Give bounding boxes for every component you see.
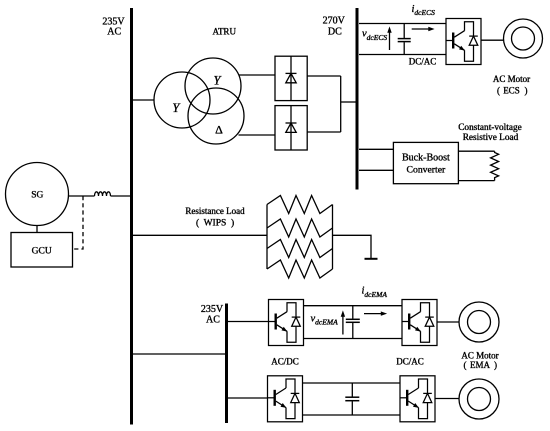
svg-text:idcECS: idcECS (412, 4, 436, 17)
converter AC/DC (EMA1) (269, 300, 304, 346)
WIPS left rail (266, 205, 268, 270)
svg-text:vdcEMA: vdcEMA (311, 313, 339, 326)
wire SG to GCU (36, 226, 38, 233)
svg-text:idcEMA: idcEMA (362, 285, 388, 298)
wire EMA2 dc link bottom rail (303, 414, 401, 416)
svg-text:Resistance Load: Resistance Load (185, 206, 245, 216)
wire inverter to ECS motor (481, 39, 504, 41)
GCU box (11, 233, 73, 268)
label i_dcECS (412, 4, 436, 17)
ground (365, 258, 378, 260)
wire EMA2 inverter to motor (435, 398, 459, 400)
wire sub-bus to EMA1 rectifier (228, 321, 269, 323)
arrow v_dcECS (387, 26, 391, 50)
svg-text:(EMA): (EMA) (464, 360, 498, 370)
svg-text:SG: SG (31, 191, 43, 201)
wire rectifier common vertical (340, 76, 342, 132)
WIPS resistor row 4 (267, 260, 333, 278)
label 270V DC (323, 16, 346, 38)
WIPS resistor row 1 (267, 196, 333, 214)
svg-text:AC/DC: AC/DC (271, 356, 299, 366)
svg-text:Y: Y (214, 74, 223, 88)
wire SG to inductor (68, 195, 94, 197)
wire main bus to WIPS load (133, 234, 268, 236)
svg-text:AC Motor: AC Motor (461, 350, 498, 360)
270V DC bus (356, 8, 359, 190)
svg-text:Converter: Converter (407, 164, 447, 175)
wire top winding to rectifier 1 (239, 74, 276, 76)
resistor constant-voltage load (491, 151, 499, 180)
svg-text:Constant-voltage: Constant-voltage (458, 123, 522, 133)
label DC/AC (EMA1) (396, 356, 424, 366)
svg-text:AC: AC (107, 26, 121, 37)
wire buck-boost to load bottom (458, 180, 494, 182)
label Resistance Load (WIPS) (185, 206, 245, 229)
svg-text:AC Motor: AC Motor (493, 74, 530, 84)
generator SG (6, 163, 69, 226)
wire DC bus to buck-boost top (359, 148, 393, 150)
label AC Motor (EMA) (461, 350, 498, 370)
svg-text:(WIPS): (WIPS) (196, 217, 234, 228)
AC motor EMA2 (459, 379, 499, 419)
converter AC/DC (EMA2) (268, 376, 303, 422)
label 235V AC (EMA bus) (201, 304, 224, 326)
wire rectifier to DC bus (341, 101, 357, 103)
inductor L (95, 192, 111, 196)
converter DC/AC (EMA2 inverter) (400, 376, 435, 422)
wire buck-boost to load top (458, 150, 494, 152)
label DC/AC (ECS) (409, 57, 437, 67)
EMA 235V AC sub-bus (225, 304, 228, 424)
WIPS resistor row 3 (267, 240, 333, 258)
ATRU left winding circle Y (154, 72, 210, 128)
converter DC/AC (EMA1 inverter) (402, 300, 437, 346)
wire EMA1 dc link top rail (304, 305, 403, 307)
wire WIPS to ground (333, 235, 372, 258)
wire rectifier 1 output (307, 75, 341, 77)
svg-text:vdcECS: vdcECS (362, 28, 387, 41)
wire EMA2 dc link top rail (303, 382, 401, 384)
svg-text:ATRU: ATRU (212, 27, 236, 37)
arrow i_dcEMA (364, 311, 387, 315)
svg-text:235V: 235V (201, 304, 224, 315)
label 235V AC (main bus) (102, 16, 125, 37)
label ATRU (212, 27, 236, 37)
label AC Motor (ECS) (493, 74, 530, 96)
ATRU bottom winding circle Delta (188, 88, 244, 144)
svg-text:GCU: GCU (32, 246, 52, 256)
wire bottom winding to rectifier 2 (239, 134, 276, 136)
capacitor C (ECS dc link) (398, 24, 411, 55)
svg-text:DC/AC: DC/AC (409, 57, 437, 67)
svg-text:(ECS): (ECS) (497, 86, 528, 96)
wire DC bus to buck-boost bottom (359, 169, 393, 171)
rectifier box 1 (275, 56, 307, 100)
dashed sense line to GCU (73, 196, 83, 249)
wire EMA1 dc link bottom rail (304, 338, 403, 340)
wire EMA1 inverter to motor (437, 321, 459, 323)
arrow i_dcECS (412, 27, 435, 31)
label i_dcEMA (362, 285, 388, 298)
wire sub-bus to EMA2 rectifier (228, 397, 268, 399)
wire ECS dc link top rail (359, 23, 446, 25)
label v_dcECS (362, 28, 387, 41)
AC motor EMA1 (459, 302, 499, 342)
ATRU top winding circle Y (185, 58, 241, 114)
svg-text:DC/AC: DC/AC (396, 356, 424, 366)
arrow v_dcEMA (341, 310, 345, 334)
buck-boost converter box (393, 142, 458, 183)
WIPS right rail (332, 205, 334, 270)
svg-text:Y: Y (172, 101, 181, 115)
wire main bus to ATRU (133, 99, 155, 101)
rectifier box 2 (275, 106, 307, 150)
converter DC/AC (ECS inverter) (446, 19, 481, 65)
main 235V AC bus (130, 8, 133, 425)
svg-text:270V: 270V (323, 16, 346, 27)
wire inductor to main bus (111, 195, 132, 197)
svg-text:Buck-Boost: Buck-Boost (402, 152, 450, 163)
wire main bus to EMA sub-bus (133, 353, 227, 355)
AC motor ECS (504, 19, 543, 58)
svg-text:Resistive Load: Resistive Load (463, 133, 519, 143)
wire rectifier 2 output (307, 131, 341, 133)
svg-text:DC: DC (328, 26, 342, 37)
svg-text:Δ: Δ (215, 123, 223, 137)
label v_dcEMA (311, 313, 339, 326)
label Constant-voltage Resistive Load (458, 123, 522, 143)
capacitor C (EMA2 dc link) (345, 383, 359, 415)
capacitor C (EMA1 dc link) (346, 306, 360, 339)
WIPS resistor row 2 (267, 219, 333, 237)
wire ECS dc link bottom rail (359, 54, 446, 56)
label AC/DC (EMA1) (271, 356, 299, 366)
svg-text:AC: AC (206, 315, 220, 326)
